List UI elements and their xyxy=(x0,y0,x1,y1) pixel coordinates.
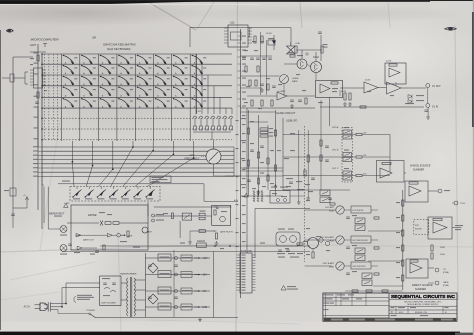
svg-text:MICROCOMPUTER, KEYBOARD, LFO,: MICROCOMPUTER, KEYBOARD, LFO, xyxy=(404,300,442,303)
svg-text:0.6K: 0.6K xyxy=(296,43,301,45)
svg-text:FILT ENV ROUTE: FILT ENV ROUTE xyxy=(353,240,369,242)
svg-text:(PGM): (PGM) xyxy=(443,285,449,287)
svg-text:CV B: CV B xyxy=(460,203,465,205)
svg-text:DRONE: DRONE xyxy=(88,214,97,217)
svg-text:LFO B: LFO B xyxy=(332,149,339,151)
svg-text:SUMMER: SUMMER xyxy=(415,288,426,291)
svg-text:POWER: POWER xyxy=(87,310,96,312)
svg-text:LFO C: LFO C xyxy=(332,168,339,170)
svg-text:CV OUT: CV OUT xyxy=(432,86,441,88)
svg-text:200K: 200K xyxy=(440,247,445,249)
svg-text:SA(1 KEYBOARD): SA(1 KEYBOARD) xyxy=(107,47,131,51)
svg-text:LFO A: LFO A xyxy=(332,126,339,129)
svg-text:4.02K: 4.02K xyxy=(341,91,347,93)
svg-text:GATE OUT: GATE OUT xyxy=(83,239,95,242)
svg-text:MOD: MOD xyxy=(329,211,334,213)
svg-text:DIRECT SOURCE: DIRECT SOURCE xyxy=(412,284,433,287)
svg-text:+15: +15 xyxy=(213,207,216,209)
svg-text:U107: U107 xyxy=(30,43,37,47)
svg-text:MICROCOMPUTER: MICROCOMPUTER xyxy=(31,38,60,42)
svg-text:GATE: GATE xyxy=(443,281,449,284)
svg-text:ROUTE: ROUTE xyxy=(415,229,422,231)
svg-text:FREQUENCY: FREQUENCY xyxy=(184,158,199,161)
svg-text:SUMMER: SUMMER xyxy=(413,169,424,172)
svg-text:J68: J68 xyxy=(92,37,97,40)
svg-text:OSC B AMT: OSC B AMT xyxy=(323,262,335,265)
svg-text:CV IN: CV IN xyxy=(432,107,438,109)
svg-text:LFO ROUTE: LFO ROUTE xyxy=(353,210,365,212)
svg-text:4.02K: 4.02K xyxy=(365,80,371,82)
svg-text:GND: GND xyxy=(202,307,207,309)
svg-text:3012: 3012 xyxy=(399,312,405,314)
svg-text:J-101: J-101 xyxy=(196,111,201,113)
svg-text:-15V: -15V xyxy=(202,275,207,277)
svg-text:4.02K: 4.02K xyxy=(386,61,392,63)
svg-text:SWITCH/KYBD MATRIX: SWITCH/KYBD MATRIX xyxy=(103,43,137,47)
svg-text:U10B LFO: U10B LFO xyxy=(286,120,297,123)
svg-text:MOD: MOD xyxy=(329,267,334,269)
svg-text:MODEL 700: MODEL 700 xyxy=(415,312,428,314)
svg-text:J-ARP: J-ARP xyxy=(64,202,70,205)
svg-text:MOD: MOD xyxy=(329,241,334,243)
svg-text:SEQUENTIAL CIRCUITS INC: SEQUENTIAL CIRCUITS INC xyxy=(391,294,455,300)
svg-text:MODULATION, POWER SUPPLY: MODULATION, POWER SUPPLY xyxy=(407,303,439,306)
svg-text:GLIDE CIRCUIT: GLIDE CIRCUIT xyxy=(276,111,295,115)
svg-text:U10: U10 xyxy=(230,22,235,25)
svg-text:A IN: A IN xyxy=(233,199,238,202)
svg-text:GATE: GATE xyxy=(147,231,153,234)
svg-text:100K: 100K xyxy=(440,254,445,256)
svg-text:GLIDE: GLIDE xyxy=(292,78,299,80)
svg-text:+5V: +5V xyxy=(202,291,207,293)
svg-text:OSC B ROUTE: OSC B ROUTE xyxy=(353,266,367,268)
svg-text:TRANSFORMER: TRANSFORMER xyxy=(120,273,137,276)
svg-text:+15V: +15V xyxy=(202,258,208,260)
svg-text:GATE FILE IN: GATE FILE IN xyxy=(220,231,233,234)
svg-text:LINE VOLTAGE: LINE VOLTAGE xyxy=(101,302,116,305)
svg-text:16.5K: 16.5K xyxy=(266,33,272,35)
svg-text:REPEAT/EXT: REPEAT/EXT xyxy=(49,212,65,215)
svg-text:LFO AMT: LFO AMT xyxy=(325,206,335,209)
svg-text:(PGM): (PGM) xyxy=(443,272,449,274)
svg-text:D: D xyxy=(391,311,393,314)
svg-text:AC IN: AC IN xyxy=(23,306,30,309)
svg-text:W-MOD SOURCE: W-MOD SOURCE xyxy=(410,165,431,168)
svg-text:RATE: RATE xyxy=(292,80,298,83)
